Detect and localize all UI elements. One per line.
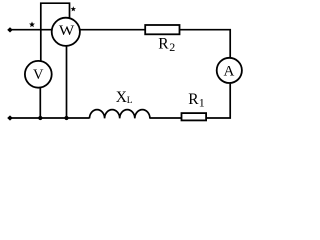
wire wattmeter to bottom [66,46,68,119]
voltmeter V [25,61,52,88]
svg-text:1: 1 [199,96,205,110]
svg-text:W: W [59,23,75,39]
polarity asterisk wattmeter [71,6,76,11]
polarity asterisk left [29,22,35,28]
svg-text:L: L [127,96,133,106]
terminal arrow top-left [7,27,13,32]
terminal arrow bottom-left [7,115,13,120]
wire bottom horizontal left segment [9,117,90,119]
wire wattmeter voltage-coil bracket [41,3,70,30]
svg-text:V: V [33,67,44,83]
wire top to voltmeter [40,30,42,62]
wire bottom right segment and right vertical riser [207,84,231,118]
resistor R1 [182,113,207,120]
wire voltmeter to bottom [39,87,41,118]
inductor XL coil [90,110,150,119]
junction dot voltmeter-bottom [38,116,42,120]
wire top horizontal [9,30,230,58]
svg-text:2: 2 [169,40,175,54]
svg-text:R: R [158,35,169,52]
wire bottom segment coil-to-R1 [150,117,182,119]
svg-text:R: R [188,91,199,108]
wattmeter W [52,18,80,46]
resistor R2 [145,25,179,34]
ammeter A [217,58,242,83]
junction dot wattmeter-bottom [64,116,68,120]
svg-text:X: X [116,89,127,106]
svg-text:A: A [223,63,234,79]
